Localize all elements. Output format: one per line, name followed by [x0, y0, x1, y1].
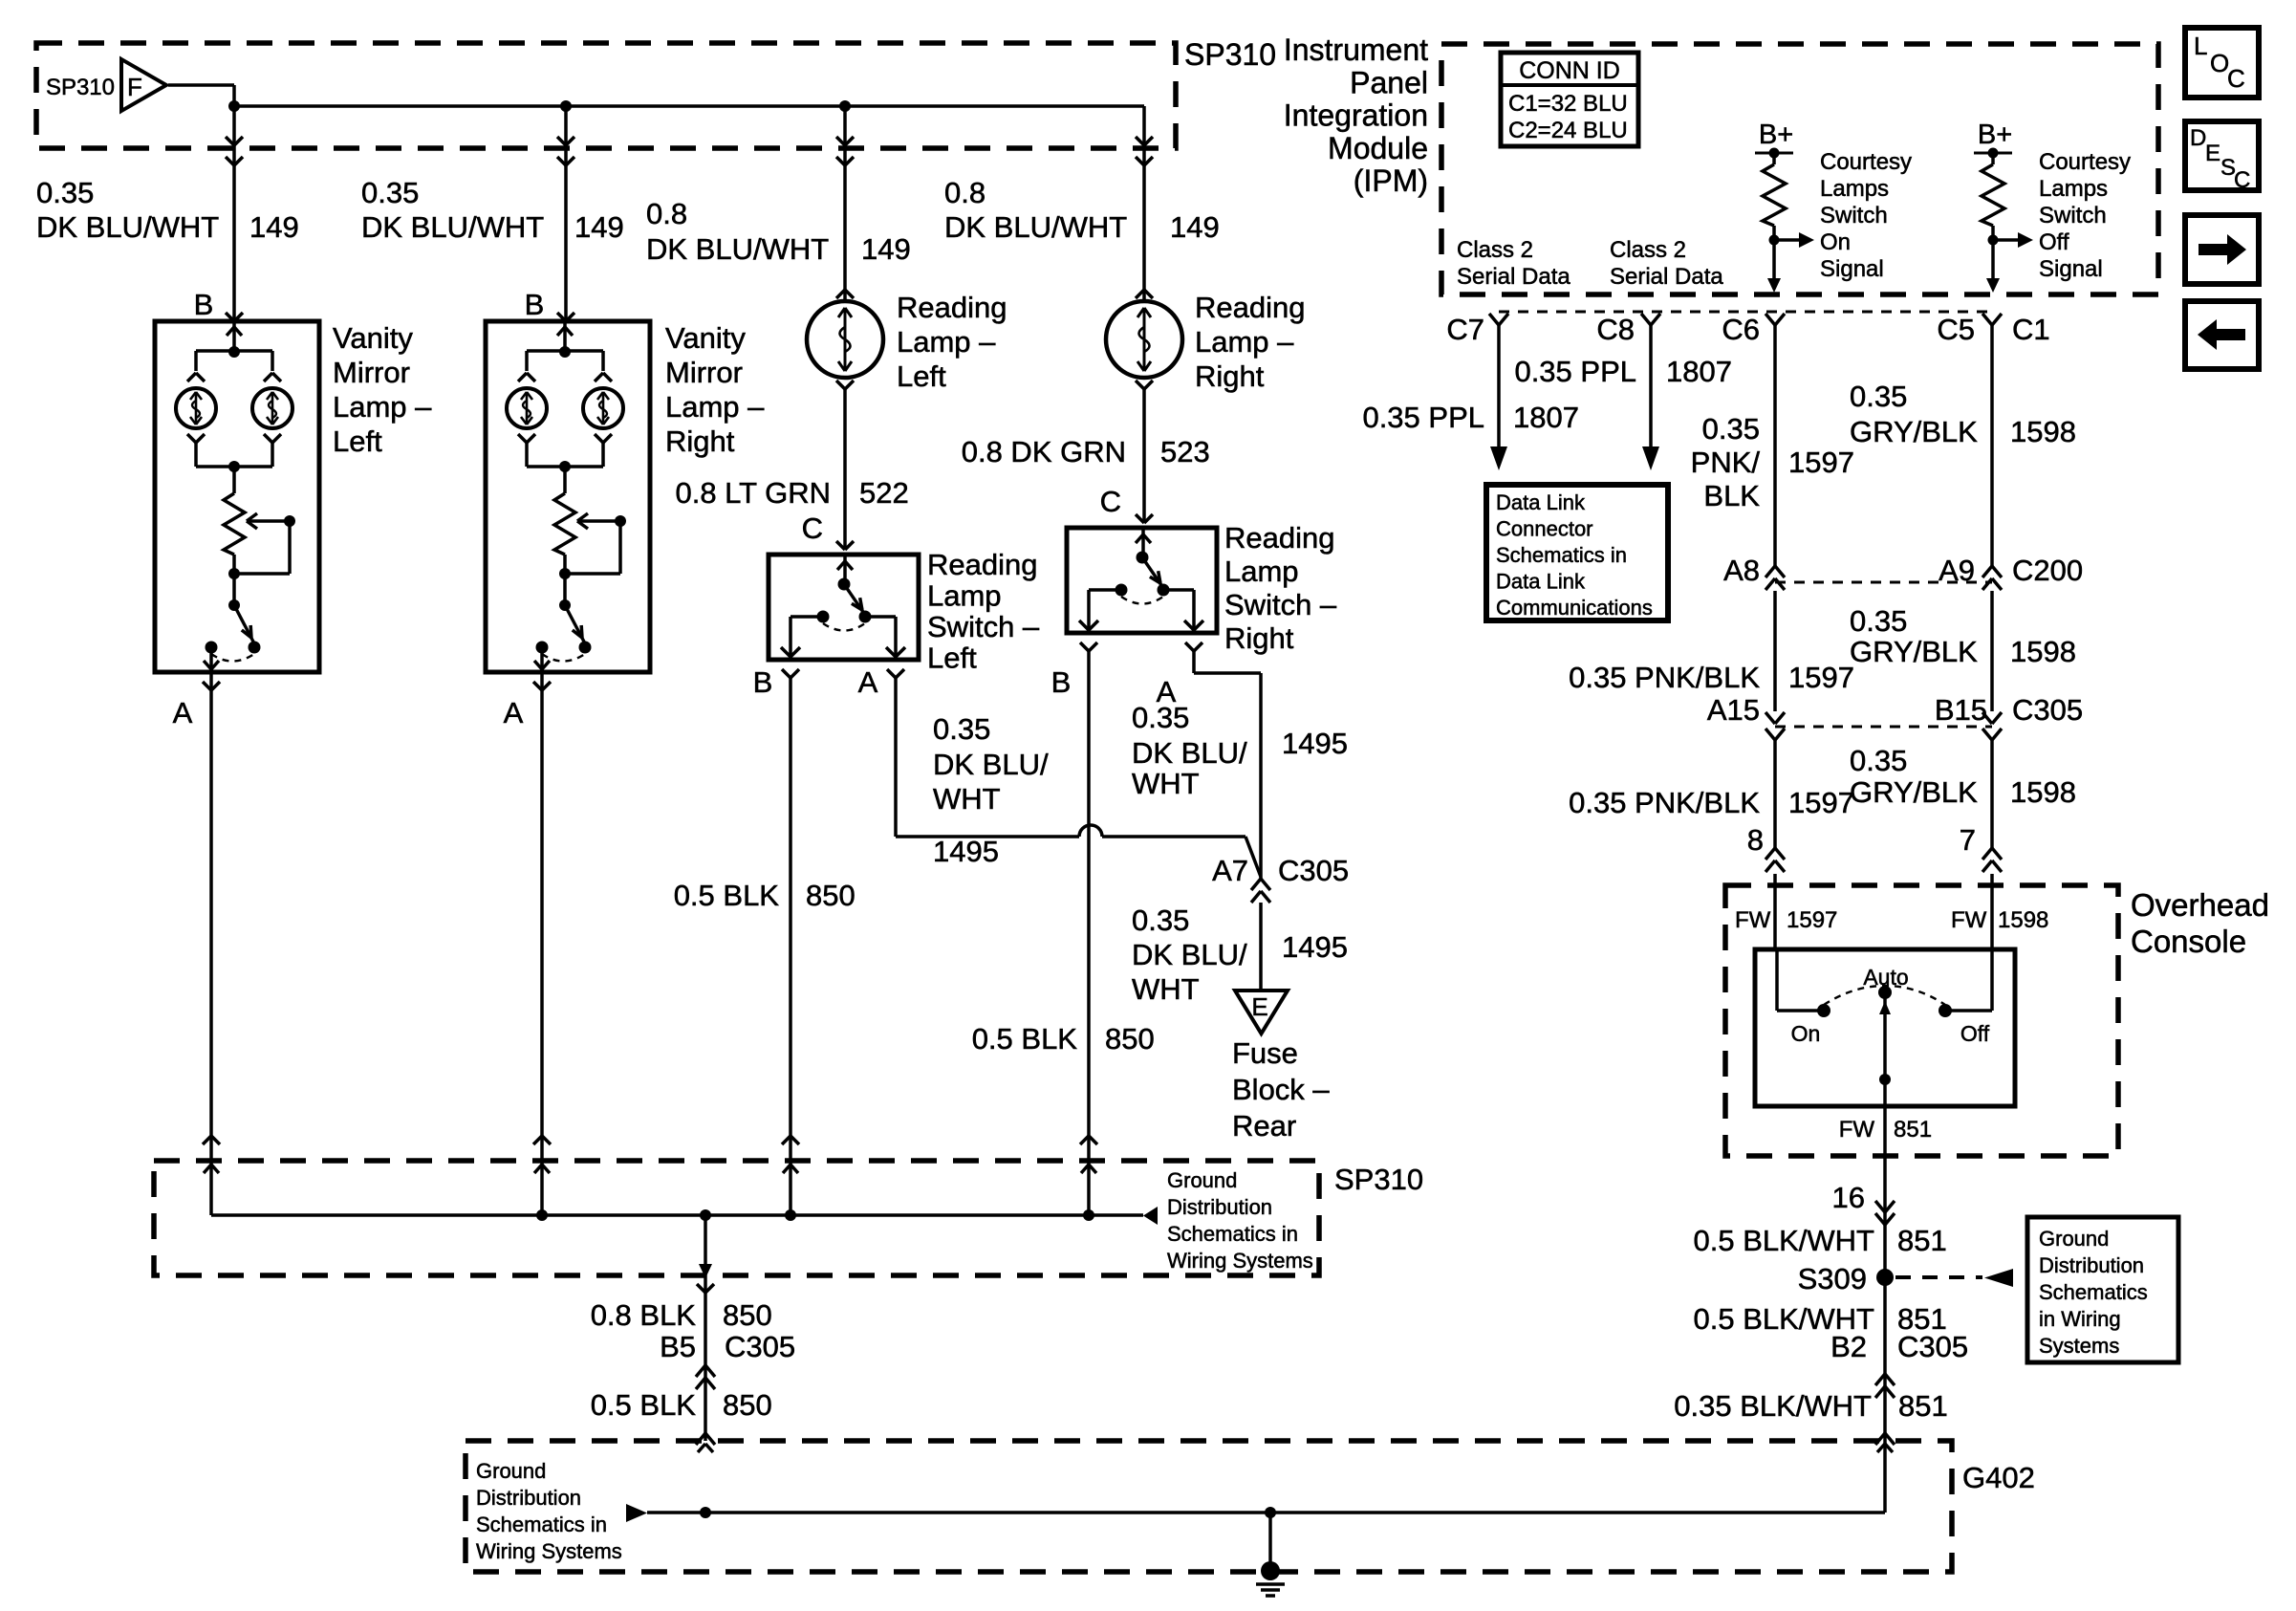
svg-text:WHT: WHT	[933, 782, 1001, 816]
svg-text:522: 522	[859, 476, 909, 510]
svg-text:0.35: 0.35	[1132, 701, 1189, 734]
svg-text:DK BLU/: DK BLU/	[1132, 938, 1247, 971]
svg-text:B15: B15	[1935, 693, 1987, 727]
svg-text:PNK/: PNK/	[1691, 446, 1761, 479]
svg-text:Ground: Ground	[2039, 1227, 2109, 1251]
svg-text:Lamp –: Lamp –	[333, 390, 432, 424]
svg-text:A: A	[504, 696, 524, 729]
svg-text:Right: Right	[1195, 359, 1265, 393]
svg-text:Schematics in: Schematics in	[1496, 543, 1627, 567]
svg-text:F: F	[127, 73, 142, 101]
svg-text:Left: Left	[333, 425, 382, 458]
svg-text:CONN ID: CONN ID	[1519, 57, 1620, 84]
svg-text:0.35: 0.35	[933, 712, 990, 746]
svg-text:C200: C200	[2012, 554, 2083, 587]
svg-text:C6: C6	[1722, 313, 1760, 346]
svg-text:L: L	[2194, 32, 2207, 60]
svg-text:C8: C8	[1596, 313, 1635, 346]
svg-text:DK BLU/WHT: DK BLU/WHT	[36, 210, 219, 244]
svg-text:0.35: 0.35	[361, 176, 419, 209]
svg-text:Systems: Systems	[2039, 1334, 2119, 1358]
svg-text:Courtesy: Courtesy	[2039, 149, 2131, 175]
svg-text:B: B	[1051, 665, 1072, 699]
svg-text:C2=24 BLU: C2=24 BLU	[1508, 118, 1628, 143]
svg-text:WHT: WHT	[1132, 972, 1200, 1006]
svg-text:B: B	[753, 665, 773, 699]
svg-text:1597: 1597	[1788, 446, 1854, 479]
svg-text:Auto: Auto	[1863, 965, 1908, 990]
svg-text:0.35: 0.35	[1850, 380, 1907, 413]
svg-text:DK BLU/WHT: DK BLU/WHT	[361, 210, 544, 244]
svg-text:C1: C1	[2012, 313, 2050, 346]
svg-text:0.35: 0.35	[1850, 604, 1907, 638]
svg-text:Serial Data: Serial Data	[1457, 264, 1570, 290]
svg-text:DK BLU/WHT: DK BLU/WHT	[944, 210, 1127, 244]
svg-text:Mirror: Mirror	[333, 356, 410, 389]
svg-text:8: 8	[1747, 823, 1764, 857]
svg-text:Signal: Signal	[2039, 256, 2103, 282]
svg-text:D: D	[2190, 125, 2206, 151]
svg-text:851: 851	[1898, 1389, 1948, 1423]
svg-text:Module: Module	[1328, 131, 1428, 165]
svg-text:0.5 BLK: 0.5 BLK	[674, 879, 780, 912]
svg-text:Console: Console	[2131, 924, 2246, 959]
svg-text:A7: A7	[1212, 854, 1248, 887]
svg-text:Lamp: Lamp	[927, 579, 1002, 613]
svg-text:851: 851	[1897, 1224, 1947, 1257]
svg-text:C: C	[2227, 64, 2245, 93]
svg-text:0.5 BLK/WHT: 0.5 BLK/WHT	[1694, 1224, 1875, 1257]
svg-text:in Wiring: in Wiring	[2039, 1307, 2121, 1331]
svg-text:Reading: Reading	[1195, 291, 1305, 324]
svg-text:Left: Left	[897, 359, 946, 393]
svg-text:C7: C7	[1446, 313, 1484, 346]
svg-text:Off: Off	[2039, 229, 2069, 255]
svg-text:149: 149	[1170, 210, 1220, 244]
svg-text:Lamps: Lamps	[1820, 176, 1889, 202]
svg-text:0.5 BLK: 0.5 BLK	[972, 1022, 1078, 1056]
svg-text:C1=32 BLU: C1=32 BLU	[1508, 91, 1628, 117]
svg-text:Vanity: Vanity	[333, 321, 413, 355]
svg-text:C: C	[802, 512, 823, 545]
svg-text:Vanity: Vanity	[665, 321, 746, 355]
svg-text:0.8 BLK: 0.8 BLK	[591, 1298, 697, 1332]
svg-text:1597: 1597	[1787, 907, 1837, 933]
svg-text:Integration: Integration	[1284, 98, 1428, 133]
svg-text:Block –: Block –	[1232, 1073, 1330, 1106]
svg-text:C305: C305	[1278, 854, 1349, 887]
svg-text:0.35 PPL: 0.35 PPL	[1362, 401, 1484, 434]
svg-text:GRY/BLK: GRY/BLK	[1850, 635, 1978, 668]
svg-text:DK BLU/: DK BLU/	[933, 748, 1049, 781]
svg-text:A: A	[173, 696, 193, 729]
svg-text:149: 149	[574, 210, 624, 244]
svg-text:850: 850	[723, 1298, 772, 1332]
svg-text:C305: C305	[1897, 1330, 1968, 1363]
svg-text:Lamp: Lamp	[1224, 555, 1299, 588]
svg-text:A15: A15	[1707, 693, 1760, 727]
svg-text:Serial Data: Serial Data	[1610, 264, 1723, 290]
svg-text:Off: Off	[1960, 1021, 1990, 1046]
svg-text:1597: 1597	[1788, 661, 1854, 694]
svg-text:Lamps: Lamps	[2039, 176, 2108, 202]
svg-text:Wiring Systems: Wiring Systems	[476, 1539, 622, 1563]
svg-text:On: On	[1791, 1021, 1821, 1046]
svg-text:B: B	[194, 288, 214, 321]
svg-text:1598: 1598	[2010, 415, 2076, 448]
svg-text:BLK: BLK	[1703, 479, 1760, 512]
svg-text:A8: A8	[1723, 554, 1760, 587]
svg-text:Schematics: Schematics	[2039, 1280, 2148, 1304]
svg-text:C: C	[2234, 167, 2250, 193]
svg-text:B+: B+	[1759, 120, 1793, 150]
svg-text:B5: B5	[660, 1330, 696, 1363]
svg-text:0.35 PNK/BLK: 0.35 PNK/BLK	[1569, 661, 1760, 694]
svg-text:SP310: SP310	[46, 75, 115, 100]
svg-text:Overhead: Overhead	[2131, 887, 2269, 923]
svg-text:1807: 1807	[1513, 401, 1579, 434]
svg-text:0.35: 0.35	[1850, 744, 1907, 777]
svg-text:(IPM): (IPM)	[1354, 163, 1428, 198]
svg-text:0.8: 0.8	[646, 197, 687, 230]
svg-text:Lamp –: Lamp –	[1195, 325, 1294, 359]
svg-text:850: 850	[723, 1388, 772, 1422]
svg-text:Lamp –: Lamp –	[897, 325, 996, 359]
svg-text:Connector: Connector	[1496, 517, 1593, 541]
svg-text:Communications: Communications	[1496, 596, 1653, 620]
svg-text:Mirror: Mirror	[665, 356, 743, 389]
svg-text:WHT: WHT	[1132, 767, 1200, 800]
svg-text:GRY/BLK: GRY/BLK	[1850, 415, 1978, 448]
svg-text:0.35 BLK/WHT: 0.35 BLK/WHT	[1674, 1389, 1872, 1423]
svg-text:Switch: Switch	[2039, 203, 2107, 229]
svg-text:SP310: SP310	[1334, 1163, 1423, 1196]
svg-text:E: E	[2205, 141, 2220, 166]
svg-text:Right: Right	[665, 425, 735, 458]
svg-text:1495: 1495	[1282, 930, 1348, 964]
svg-text:Class 2: Class 2	[1610, 237, 1686, 263]
svg-text:G402: G402	[1962, 1461, 2035, 1494]
svg-text:A9: A9	[1939, 554, 1975, 587]
svg-text:C305: C305	[2012, 693, 2083, 727]
svg-text:On: On	[1820, 229, 1851, 255]
svg-text:Distribution: Distribution	[1167, 1195, 1272, 1219]
svg-text:Distribution: Distribution	[2039, 1253, 2144, 1277]
svg-text:1597: 1597	[1788, 786, 1854, 819]
svg-text:Ground: Ground	[476, 1459, 546, 1483]
svg-text:B: B	[525, 288, 545, 321]
svg-text:Wiring Systems: Wiring Systems	[1167, 1249, 1313, 1273]
svg-text:851: 851	[1894, 1117, 1932, 1143]
svg-text:C305: C305	[725, 1330, 795, 1363]
svg-text:1807: 1807	[1666, 355, 1732, 388]
svg-text:Class 2: Class 2	[1457, 237, 1533, 263]
svg-text:DK BLU/WHT: DK BLU/WHT	[646, 232, 829, 266]
svg-text:Courtesy: Courtesy	[1820, 149, 1912, 175]
svg-text:FW: FW	[1951, 907, 1987, 933]
svg-text:E: E	[1251, 992, 1267, 1021]
svg-text:1495: 1495	[1282, 727, 1348, 760]
svg-text:Switch –: Switch –	[1224, 588, 1337, 621]
svg-text:149: 149	[249, 210, 299, 244]
svg-text:Rear: Rear	[1232, 1109, 1296, 1143]
svg-text:SP310: SP310	[1184, 37, 1276, 72]
svg-text:Schematics in: Schematics in	[476, 1513, 607, 1536]
svg-text:Instrument: Instrument	[1284, 33, 1428, 67]
svg-text:FW: FW	[1839, 1117, 1875, 1143]
svg-text:Data Link: Data Link	[1496, 570, 1586, 594]
svg-text:0.35: 0.35	[1702, 412, 1760, 446]
svg-text:A: A	[858, 665, 878, 699]
svg-text:1495: 1495	[933, 835, 999, 868]
svg-text:B2: B2	[1830, 1330, 1867, 1363]
svg-text:S309: S309	[1798, 1262, 1867, 1295]
svg-text:Fuse: Fuse	[1232, 1036, 1298, 1070]
svg-text:Panel: Panel	[1350, 65, 1428, 99]
svg-text:1598: 1598	[2010, 775, 2076, 809]
svg-text:523: 523	[1160, 435, 1210, 468]
svg-text:0.8 LT GRN: 0.8 LT GRN	[675, 476, 831, 510]
svg-text:C: C	[1100, 485, 1121, 518]
svg-text:Switch: Switch	[1820, 203, 1888, 229]
svg-text:16: 16	[1832, 1181, 1865, 1214]
svg-text:B+: B+	[1978, 120, 2012, 150]
svg-text:Reading: Reading	[1224, 521, 1334, 555]
svg-text:1598: 1598	[2010, 635, 2076, 668]
svg-text:850: 850	[806, 879, 856, 912]
svg-text:Left: Left	[927, 642, 977, 675]
svg-text:0.35 PPL: 0.35 PPL	[1514, 355, 1636, 388]
svg-text:850: 850	[1105, 1022, 1155, 1056]
svg-text:Reading: Reading	[897, 291, 1007, 324]
svg-text:Switch –: Switch –	[927, 610, 1040, 643]
svg-text:Data Link: Data Link	[1496, 490, 1586, 514]
svg-text:0.8: 0.8	[944, 176, 986, 209]
svg-text:C5: C5	[1937, 313, 1975, 346]
svg-text:0.8 DK GRN: 0.8 DK GRN	[962, 435, 1126, 468]
svg-text:Reading: Reading	[927, 548, 1037, 581]
svg-text:0.5 BLK: 0.5 BLK	[591, 1388, 697, 1422]
svg-text:0.35 PNK/BLK: 0.35 PNK/BLK	[1569, 786, 1760, 819]
svg-text:Ground: Ground	[1167, 1168, 1237, 1192]
svg-text:7: 7	[1960, 823, 1976, 857]
svg-text:Schematics in: Schematics in	[1167, 1222, 1298, 1246]
svg-text:149: 149	[861, 232, 911, 266]
svg-text:0.35: 0.35	[36, 176, 94, 209]
svg-text:Signal: Signal	[1820, 256, 1884, 282]
svg-text:Right: Right	[1224, 621, 1294, 655]
svg-text:GRY/BLK: GRY/BLK	[1850, 775, 1978, 809]
svg-text:Distribution: Distribution	[476, 1486, 581, 1510]
svg-text:1598: 1598	[1998, 907, 2048, 933]
svg-text:DK BLU/: DK BLU/	[1132, 736, 1247, 770]
svg-text:0.35: 0.35	[1132, 903, 1189, 937]
svg-text:FW: FW	[1735, 907, 1771, 933]
svg-text:Lamp –: Lamp –	[665, 390, 765, 424]
